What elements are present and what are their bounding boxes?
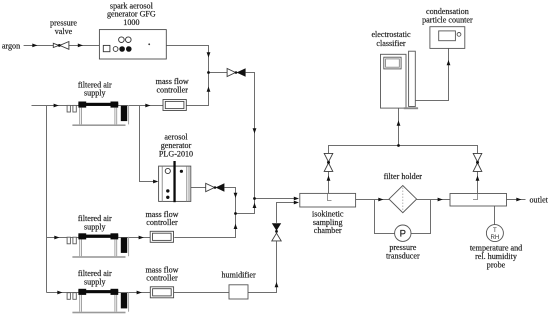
arrow MFC1 up	[207, 87, 211, 92]
wire row 2 supply	[47, 237, 151, 239]
arrow CPC riser up	[447, 60, 451, 65]
arrow GFG down	[207, 52, 211, 57]
svg-text:particle counter: particle counter	[422, 16, 473, 25]
mass flow controller MFC3	[150, 287, 173, 298]
wire junction A to valve V2	[209, 72, 228, 74]
electrostatic classifier	[381, 51, 419, 109]
filtered air supply F1	[67, 102, 129, 127]
node B	[253, 197, 256, 200]
filter holder diamond	[389, 186, 417, 213]
wire MFC3 to humidifier	[174, 292, 229, 294]
arrow row2 to MFC	[139, 236, 144, 240]
wire MFC2 to junction C	[174, 214, 235, 238]
svg-text:valve: valve	[55, 27, 73, 36]
svg-text:argon: argon	[2, 41, 20, 50]
valve V6 (above isokinetic chamber)	[324, 153, 333, 171]
arrow outlet	[516, 198, 521, 202]
wire valve V2 to main drop	[246, 73, 255, 199]
aerosol generator PLG-2010	[159, 161, 191, 202]
wire chamber to valve V6	[328, 172, 330, 194]
svg-text:transducer: transducer	[386, 252, 420, 261]
arrow chamber upper inlet	[294, 197, 299, 201]
arrow chamber lower inlet	[294, 201, 299, 205]
svg-text:chamber: chamber	[314, 226, 342, 235]
svg-text:RH: RH	[490, 234, 499, 241]
valve V3 (PLG line)	[206, 183, 225, 192]
mass flow controller MFC2	[150, 231, 173, 242]
arrow classifier riser up	[397, 121, 401, 126]
node A	[207, 71, 210, 74]
arrow row2 supply	[54, 236, 59, 240]
spark aerosol generator GFG 1000 box	[99, 30, 166, 59]
wire PLG output	[191, 187, 206, 189]
arrow junction C riser up	[253, 203, 257, 208]
svg-text:controller: controller	[146, 274, 178, 283]
condensation particle counter	[430, 27, 465, 49]
arrow to GFG	[78, 44, 83, 48]
svg-text:controller: controller	[156, 86, 188, 95]
pressure valve V1	[53, 42, 69, 50]
check valve V4	[272, 223, 281, 241]
arrow main drop down	[253, 128, 257, 133]
wire transducer bypass left	[375, 200, 395, 234]
svg-text:supply: supply	[84, 89, 107, 98]
valve V5 (above probe chamber)	[473, 153, 482, 171]
arrow into PLG	[153, 180, 158, 184]
arrow V3 branch down	[234, 193, 238, 198]
wire valve to GFG	[69, 45, 100, 47]
wire MFC1 to junction A	[186, 73, 208, 106]
svg-text:supply: supply	[84, 222, 107, 231]
arrow to filter holder	[378, 198, 383, 202]
junction dots	[207, 71, 400, 215]
svg-text:T: T	[493, 227, 497, 234]
wire probe chamber to outlet	[507, 199, 526, 201]
T/RH probe circle	[486, 225, 503, 242]
node D	[397, 144, 400, 147]
wire classifier to CPC	[415, 48, 448, 100]
arrow to probe chamber	[438, 198, 443, 202]
probe chamber	[450, 194, 507, 207]
svg-text:filter holder: filter holder	[384, 172, 423, 181]
filtered air supply F3	[67, 289, 129, 314]
arrow sampling V6 up	[327, 176, 331, 181]
wire valve V3 to drop	[224, 188, 235, 214]
arrow argon	[32, 44, 37, 48]
humidifier box	[229, 285, 248, 299]
svg-text:probe: probe	[487, 260, 506, 269]
svg-text:classifier: classifier	[376, 39, 406, 48]
wire GFG output down	[166, 46, 208, 73]
wire chamber to filter holder	[356, 199, 390, 201]
wire row 3 supply	[47, 292, 151, 294]
svg-text:P: P	[400, 229, 406, 240]
svg-text:generator: generator	[161, 141, 192, 150]
wire junction C to riser	[236, 199, 255, 214]
svg-text:humidifier: humidifier	[222, 271, 256, 280]
wire filtered air row 1	[32, 105, 164, 107]
valve V2 (GFG line)	[227, 68, 246, 77]
mass flow controller MFC1	[163, 100, 186, 111]
wire filter holder to probe chamber	[417, 199, 450, 201]
arrows	[32, 44, 521, 295]
svg-text:electrostatic: electrostatic	[371, 30, 411, 39]
svg-text:outlet: outlet	[530, 195, 549, 204]
arrow row1 to MFC	[145, 104, 150, 108]
wire junction B to chamber inlet	[255, 198, 298, 200]
wire humidifier to check valve	[248, 241, 277, 292]
arrow row3 supply	[57, 291, 62, 295]
arrow row1 supply	[54, 104, 59, 108]
wire branch to PLG	[140, 106, 158, 182]
wire sampling header	[329, 146, 478, 154]
filtered air supply F2	[67, 233, 129, 257]
wire check valve to chamber lower inlet	[277, 203, 298, 223]
arrow MFC2 riser up	[234, 224, 238, 229]
wire riser to classifier	[398, 108, 400, 146]
arrow sampling V5 up	[476, 176, 480, 181]
pressure transducer P	[395, 225, 411, 241]
wire argon inlet	[24, 45, 54, 47]
node C	[234, 212, 237, 215]
svg-text:supply: supply	[84, 278, 107, 287]
arrow row3 to MFC	[137, 291, 142, 295]
wire T/RH stem	[494, 206, 496, 225]
svg-text:PLG-2010: PLG-2010	[159, 150, 193, 159]
wire supply branch vertical	[46, 106, 48, 293]
arrow check valve riser up	[275, 282, 279, 287]
svg-text:controller: controller	[146, 218, 178, 227]
wire valve V5 to probe chamber	[477, 172, 479, 194]
svg-text:1000: 1000	[123, 18, 139, 27]
isokinetic sampling chamber	[300, 193, 356, 207]
wire transducer bypass right	[411, 200, 431, 234]
